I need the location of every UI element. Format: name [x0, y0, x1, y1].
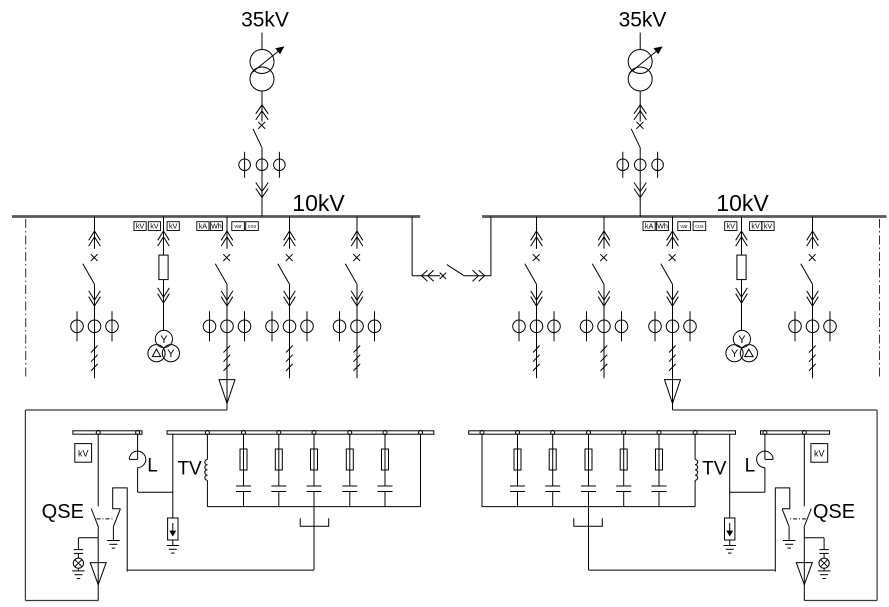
drawout contact lower F7-cap [667, 291, 679, 300]
wire bus drop F6 [603, 217, 605, 249]
wire F7-cap to termination [672, 378, 674, 410]
svg-text:Y: Y [731, 348, 739, 360]
10kV busbar section I [12, 215, 420, 218]
CT middle phase [256, 159, 268, 171]
CT middle phase [88, 320, 101, 333]
capacitor C1 plate bottom bank II [652, 491, 667, 493]
bus tie breaker fixed contact x [440, 273, 446, 279]
breaker F6 blade [592, 264, 604, 284]
wire bus to fuse 2 bank I [278, 434, 280, 449]
cable slash [533, 355, 540, 362]
wire frame left vertical bank II [876, 410, 878, 601]
wire capacitor to rail 5 bank II [517, 492, 519, 507]
svg-text:Y: Y [160, 334, 168, 346]
capacitor C5 plate bottom bank I [378, 491, 393, 493]
grounding switch QSE blade A bank I [91, 509, 98, 528]
discharge capacitor plate top bank II [819, 549, 828, 551]
wire bus drop PT2 [741, 217, 743, 256]
cable slash [669, 364, 676, 371]
wire capacitor to rail 2 bank II [623, 492, 625, 507]
meter cos-2 [693, 222, 706, 231]
wire CT primary right [374, 311, 376, 341]
breaker F5 fixed contact x [533, 254, 540, 261]
drawout contact lower F8 [807, 291, 819, 300]
meter kV bank II [811, 444, 828, 463]
breaker F1 fixed contact x [91, 254, 98, 261]
cable slash [533, 346, 540, 353]
wire fuse to capacitor 1 bank I [243, 470, 245, 486]
wire PT2 to transformer [741, 303, 743, 331]
svg-text:cos: cos [695, 224, 704, 230]
wire bus to fuse 2 bank II [623, 434, 625, 449]
wire TV to rail bank II [694, 480, 696, 506]
bus tie drop from section I [411, 217, 413, 276]
wire F8 below CT [812, 311, 814, 378]
svg-text:TV: TV [702, 459, 727, 480]
CT left phase [203, 320, 216, 333]
CT middle phase [283, 320, 296, 333]
wire CT primary right [306, 311, 308, 341]
cable slash [91, 355, 98, 362]
node end branch on bus bank I [419, 431, 423, 435]
cable slash [669, 355, 676, 362]
breaker F4 blade [345, 264, 357, 284]
fuse capacitor branch 1 bank I [240, 449, 247, 470]
bus tie wire right [464, 275, 491, 277]
wire lamp branch down bank II [823, 538, 825, 550]
svg-text:35kV: 35kV [241, 9, 289, 32]
capacitor C4 plate bottom bank II [545, 491, 560, 493]
cable slash [601, 355, 608, 362]
wire CT primary left [622, 152, 624, 178]
wire F1 below CT [94, 311, 96, 378]
fuse capacitor branch 4 bank II [549, 449, 556, 470]
meter kA-2 [643, 222, 655, 231]
node capacitor branch 4 bank I [348, 431, 352, 435]
CT middle phase [221, 320, 234, 333]
node capacitor branch 1 bank I [242, 431, 246, 435]
breaker QF fixed contact x [258, 122, 265, 129]
wire PT1 fuse to contact [163, 280, 165, 303]
wire small bus to QSE bank II [803, 434, 805, 506]
svg-text:10kV: 10kV [292, 190, 345, 216]
wire arrester to ground bank I [172, 540, 174, 546]
breaker F2-cap fixed contact x [223, 254, 230, 261]
svg-text:L: L [745, 456, 756, 477]
capacitor C1 plate top bank I [236, 485, 251, 487]
drawout contact lower F5 [531, 291, 543, 300]
boundary dash-dot right [879, 219, 881, 379]
capacitor C2 plate bottom bank II [616, 491, 631, 493]
capacitor C1 plate bottom bank I [236, 491, 251, 493]
svg-text:kV: kV [78, 449, 89, 459]
busbar capacitor bank bank I [167, 431, 434, 434]
wire bus to arrester bank I [172, 434, 174, 518]
wire CT primary right [553, 311, 555, 341]
wire lamp branch down bank I [77, 538, 79, 550]
wire F7-cap below CT [672, 311, 674, 378]
node capacitor branch 3 bank I [312, 431, 316, 435]
meter kA-1 [197, 222, 209, 231]
node L on small busbar bank I [136, 431, 140, 435]
cable slash [809, 364, 816, 371]
ground of QSE blade B bank I [107, 540, 120, 542]
breaker F7-cap fixed contact x [669, 254, 676, 261]
bus tie drawout contact right [473, 270, 479, 281]
wire breaker to bus [639, 148, 641, 217]
ground of arrester bank I [167, 545, 180, 547]
grounding switch QSE blade B bank I [113, 509, 120, 527]
grounding switch QSE blade B bank II [782, 509, 789, 527]
svg-text:kV: kV [136, 221, 145, 230]
cable slash [286, 364, 293, 371]
wire F4 breaker to CT [356, 284, 358, 311]
ground of QSE blade B bank II [783, 540, 796, 542]
CT right phase [238, 320, 251, 333]
capacitor C4 plate top bank II [545, 485, 560, 487]
svg-text:Y: Y [738, 334, 746, 346]
busbar small bank II [761, 431, 830, 434]
CT right phase [106, 320, 119, 333]
meter kV-2a [725, 222, 737, 231]
node L on small busbar bank II [763, 431, 767, 435]
node QSE on small busbar bank I [96, 431, 100, 435]
CT right phase [824, 320, 837, 333]
surge arrester F bank II [725, 518, 735, 540]
svg-text:10kV: 10kV [716, 190, 769, 216]
reactor L symbol bank I [129, 458, 137, 460]
wire fuse to capacitor 5 bank II [517, 470, 519, 486]
surge arrester gap triangle bank I [90, 563, 106, 585]
busbar capacitor bank bank II [469, 431, 736, 434]
breaker F2-cap blade [215, 264, 227, 284]
wire QSE main down bank II [803, 528, 805, 601]
breaker F8 blade [801, 264, 813, 284]
cable slash [669, 346, 676, 353]
breaker F3 fixed contact x [286, 254, 293, 261]
reactor L symbol bank II [765, 458, 773, 460]
wire bus drop F1 [94, 217, 96, 249]
discharge capacitor plate top bank I [74, 549, 83, 551]
capacitor C3 plate bottom bank I [307, 491, 322, 493]
breaker F6 fixed contact x [600, 254, 607, 261]
wire CT primary left [209, 311, 211, 341]
meter kV-2b [750, 222, 762, 231]
station transformer PT1 winding right (Y) [162, 345, 179, 362]
drawout contact lower F4 [351, 291, 363, 300]
breaker F8 fixed contact x [809, 254, 816, 261]
meter cos-1 [246, 222, 259, 231]
wire CT primary left [654, 311, 656, 341]
drawout contact upper F6 [598, 231, 610, 240]
unbalance CT bracket bank I [300, 518, 329, 526]
CT middle phase [634, 159, 646, 171]
neutral rail bank II [482, 506, 695, 508]
node capacitor branch 2 bank II [622, 431, 626, 435]
svg-text:35kV: 35kV [619, 9, 667, 32]
surge arrester gap triangle bank II [796, 563, 812, 585]
wire capacitor to rail 4 bank I [349, 492, 351, 507]
wire small bus to reactor bank I [137, 434, 139, 459]
capacitor C5 plate top bank I [378, 485, 393, 487]
voltage transformer TV coil bank I [205, 460, 208, 465]
svg-text:kV: kV [169, 221, 178, 230]
CT right phase [652, 159, 664, 171]
node capacitor branch 5 bank II [516, 431, 520, 435]
wire bus to TV bank II [694, 434, 696, 459]
wire capacitor to lamp bank I [77, 553, 79, 558]
svg-text:QSE: QSE [42, 501, 84, 523]
wire bus drop F3 [289, 217, 291, 249]
station transformer PT2 winding top (Y) [733, 330, 750, 347]
wire fuse to capacitor 3 bank II [588, 470, 590, 486]
node capacitor branch 4 bank II [551, 431, 555, 435]
wire F6 below CT [603, 311, 605, 378]
transformer T winding 2 [628, 67, 652, 91]
svg-text:Wh: Wh [211, 221, 222, 230]
wire bus to fuse 3 bank I [313, 434, 315, 449]
wire bus drop F2-cap [226, 217, 228, 249]
fuse capacitor branch 2 bank II [620, 449, 627, 470]
CT left phase [617, 159, 629, 171]
wire CT primary right [689, 311, 691, 341]
drawout contact upper F4 [351, 231, 363, 240]
wire F3 below CT [289, 311, 291, 378]
QSE linkage dash-dot bank I [97, 518, 114, 520]
capacitor C3 plate bottom bank II [581, 491, 596, 493]
bus tie breaker blade [447, 265, 464, 276]
breaker QF blade [631, 129, 640, 148]
wire bus drop F5 [536, 217, 538, 249]
meter Wh-2 [656, 222, 668, 231]
wire 35kV lead [261, 33, 263, 50]
meter Wh-1 [210, 222, 222, 231]
CT right phase [548, 320, 561, 333]
capacitor C4 plate top bank I [342, 485, 357, 487]
node end branch on bus bank II [480, 431, 484, 435]
node capacitor branch 3 bank II [587, 431, 591, 435]
drawout contact lower F1 [89, 291, 101, 300]
wire QSE blade B to ground bank II [788, 527, 790, 540]
wire F6 breaker to CT [603, 284, 605, 311]
cable slash [354, 355, 361, 362]
CT left phase [513, 320, 526, 333]
wire capacitor to rail 1 bank I [243, 492, 245, 507]
transformer T winding 1 [628, 50, 652, 74]
drawout contact upper F8 [807, 231, 819, 240]
capacitor C3 plate top bank II [581, 485, 596, 487]
svg-text:kV: kV [150, 221, 159, 230]
wire bus drop F7-cap [672, 217, 674, 249]
wire fuse to capacitor 4 bank I [349, 470, 351, 486]
cable slash [91, 364, 98, 371]
meter kV-1b [148, 222, 160, 231]
wire QSE blade B to ground bank I [112, 527, 114, 540]
wire transformer to breaker [639, 91, 641, 122]
wire bus to fuse 1 bank I [243, 434, 245, 449]
wire bus to TV bank I [206, 434, 208, 459]
drawout contact lower PT2 [736, 288, 748, 297]
drawout contact lower F2-cap [221, 291, 233, 300]
wire bus to fuse 5 bank I [384, 434, 386, 449]
node TV on bus bank I [205, 431, 209, 435]
svg-text:L: L [147, 456, 158, 477]
wire capacitor to rail 5 bank I [384, 492, 386, 507]
station transformer PT2 winding right (delta) [740, 345, 757, 362]
wire bus drop F8 [812, 217, 814, 249]
CT middle phase [530, 320, 543, 333]
node capacitor branch 2 bank I [277, 431, 281, 435]
wire F2-cap breaker to CT [226, 284, 228, 311]
tap changer arrow [251, 47, 284, 73]
svg-text:kV: kV [751, 221, 760, 230]
wire PT2 fuse to contact [741, 280, 743, 303]
drawout contact upper PT1 [158, 231, 170, 240]
wire bus end branch bank I [420, 434, 422, 506]
capacitor C2 plate top bank I [271, 485, 286, 487]
capacitor C2 plate top bank II [616, 485, 631, 487]
wire capacitor to rail 4 bank II [552, 492, 554, 507]
wire neutral down bank I [313, 507, 315, 570]
bus tie drop from section II [490, 217, 492, 276]
CT right phase [274, 159, 286, 171]
CT right phase [684, 320, 697, 333]
breaker QF blade [253, 129, 262, 148]
breaker F4 fixed contact x [353, 254, 360, 261]
CT right phase [368, 320, 381, 333]
wire frame top horizontal bank II [673, 409, 878, 411]
svg-text:kV: kV [764, 221, 773, 230]
cable slash [601, 346, 608, 353]
wire CT primary right [829, 311, 831, 341]
svg-text:kV: kV [727, 221, 736, 230]
wire QSE main down bank I [97, 528, 99, 601]
wire CT primary left [244, 152, 246, 178]
busbar small bank I [73, 431, 142, 434]
discharge capacitor plate bottom bank II [819, 552, 828, 554]
wire PT1 to transformer [163, 303, 165, 331]
wire F3 breaker to CT [289, 284, 291, 311]
meter var-2 [678, 222, 691, 231]
wire lamp to ground bank II [823, 568, 825, 571]
breaker F1 blade [83, 264, 95, 284]
CT right phase [301, 320, 314, 333]
wire capacitor to rail 3 bank II [588, 492, 590, 507]
wire F7-cap breaker to CT [672, 284, 674, 311]
wire lamp to ground bank I [77, 568, 79, 571]
drawout contact upper F5 [531, 231, 543, 240]
wire CT primary right [621, 311, 623, 341]
wire capacitor to rail 1 bank II [658, 492, 660, 507]
capacitor C4 plate bottom bank I [342, 491, 357, 493]
ground of arrester bank II [724, 545, 737, 547]
wire F2-cap below CT [226, 311, 228, 378]
wire fuse to capacitor 2 bank I [278, 470, 280, 486]
svg-text:Y: Y [167, 348, 175, 360]
wire bus end branch bank II [481, 434, 483, 506]
wire fuse to capacitor 3 bank I [313, 470, 315, 486]
drawout contact upper F2-cap [221, 231, 233, 240]
wire fuse to capacitor 4 bank II [552, 470, 554, 486]
breaker F5 blade [525, 264, 537, 284]
CT left phase [580, 320, 593, 333]
surge arrester F bank I [168, 518, 178, 540]
cable slash [809, 346, 816, 353]
drawout contact upper [256, 105, 268, 114]
fuse capacitor branch 1 bank II [656, 449, 663, 470]
node QSE on small busbar bank II [802, 431, 806, 435]
capacitor C1 plate top bank II [652, 485, 667, 487]
fuse capacitor branch 3 bank II [585, 449, 592, 470]
CT left phase [239, 159, 251, 171]
node capacitor branch 1 bank II [657, 431, 661, 435]
neutral rail bank I [207, 506, 420, 508]
indicator lamp bank I [73, 558, 83, 568]
svg-text:TV: TV [177, 459, 202, 480]
QSE linkage dash-dot bank II [789, 518, 806, 520]
wire bus to fuse 4 bank II [552, 434, 554, 449]
voltage transformer TV coil bank II [695, 460, 698, 465]
drawout contact lower [256, 183, 268, 192]
wire fuse to capacitor 5 bank I [384, 470, 386, 486]
wire lamp branch horizontal bank II [804, 537, 824, 539]
svg-text:var: var [680, 224, 688, 230]
wire neutral horizontal bank I [127, 569, 314, 571]
wire CT primary right [278, 152, 280, 178]
ground of lamp branch bank II [818, 570, 831, 572]
grounding switch QSE blade A bank II [804, 509, 811, 528]
wire fuse to capacitor 1 bank II [658, 470, 660, 486]
wire small bus to reactor bank II [764, 434, 766, 459]
drawout contact lower [634, 183, 646, 192]
cable slash [286, 355, 293, 362]
wire frame bottom horizontal bank II [804, 600, 877, 602]
wire bus to fuse 5 bank II [517, 434, 519, 449]
drawout contact lower F6 [598, 291, 610, 300]
wire CT primary left [794, 311, 796, 341]
wire CT primary left [271, 311, 273, 341]
CT left phase [649, 320, 662, 333]
tap changer arrow [629, 47, 662, 73]
wire F1 breaker to CT [94, 284, 96, 311]
wire arrester to ground bank II [729, 540, 731, 546]
svg-text:cos: cos [248, 224, 257, 230]
wire CT primary right [244, 311, 246, 341]
cable slash [224, 364, 231, 371]
wire capacitor to rail 3 bank I [313, 492, 315, 507]
CT middle phase [666, 320, 679, 333]
CT left phase [266, 320, 279, 333]
wire bus to fuse 4 bank I [349, 434, 351, 449]
CT middle phase [351, 320, 364, 333]
wire F8 breaker to CT [812, 284, 814, 311]
fuse capacitor branch 4 bank I [346, 449, 353, 470]
cable slash [286, 346, 293, 353]
station transformer PT1 winding top (Y) [155, 330, 172, 347]
wire CT primary left [586, 311, 588, 341]
cable slash [533, 364, 540, 371]
wire neutral down bank II [588, 507, 590, 570]
capacitor C5 plate top bank II [510, 485, 525, 487]
transformer T winding 1 [250, 50, 274, 74]
svg-text:Wh: Wh [657, 221, 668, 230]
cable termination F2-cap [219, 380, 235, 404]
meter var-1 [232, 222, 245, 231]
cable slash [601, 364, 608, 371]
indicator lamp bank II [819, 558, 829, 568]
wire bus drop F4 [356, 217, 358, 249]
wire transformer to breaker [261, 91, 263, 122]
